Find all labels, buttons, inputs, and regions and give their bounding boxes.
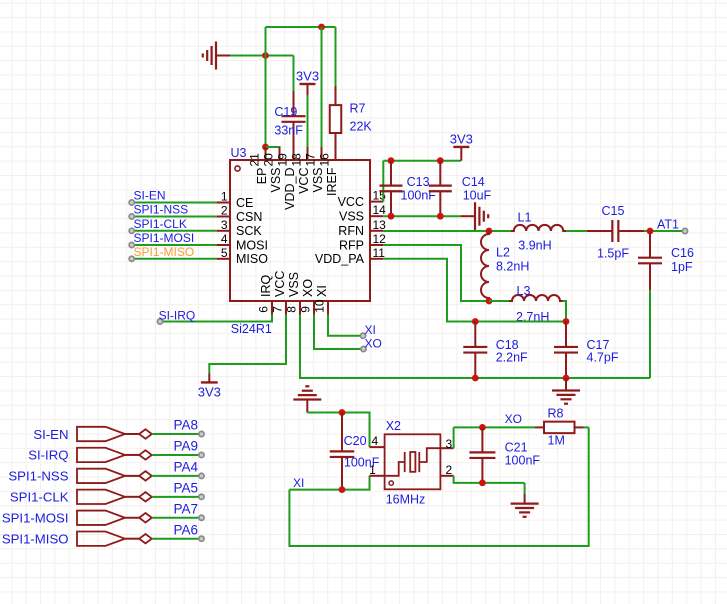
svg-text:RFP: RFP — [339, 238, 364, 252]
svg-text:13: 13 — [373, 218, 387, 232]
wire pin14 rail — [383, 215, 461, 217]
svg-text:4: 4 — [372, 434, 379, 448]
wire VSS rail bottom — [300, 315, 650, 379]
U3 pin 2 CSN stub — [217, 204, 262, 224]
svg-text:1M: 1M — [548, 434, 565, 448]
wire XI loop to R8 — [289, 427, 588, 546]
U3 pin 12 RFP stub — [339, 232, 386, 252]
svg-text:8: 8 — [285, 306, 299, 313]
crystal X2 16MHz body — [385, 419, 441, 506]
svg-text:C13: C13 — [407, 175, 430, 189]
svg-text:IRQ: IRQ — [259, 275, 273, 298]
svg-text:16MHz: 16MHz — [386, 493, 426, 507]
port flag SPI1-MISO / PA6 — [2, 522, 204, 546]
svg-text:L1: L1 — [518, 211, 532, 225]
wire pin2 to gnd — [454, 476, 525, 483]
svg-text:VCC: VCC — [273, 271, 287, 297]
svg-text:XI: XI — [293, 476, 304, 490]
svg-text:XO: XO — [505, 412, 522, 426]
svg-text:C14: C14 — [462, 175, 485, 189]
svg-text:IREF: IREF — [325, 167, 339, 196]
wire pin7 to 3V3 — [209, 315, 286, 374]
node label XO — [365, 337, 382, 351]
node label XI crystal — [293, 476, 304, 490]
svg-text:XO: XO — [301, 279, 315, 297]
node junction C20 top — [339, 409, 346, 416]
wire 3V3 rail top — [383, 160, 461, 162]
svg-text:17: 17 — [304, 153, 318, 167]
U3 pin 20 VSS top stub — [262, 147, 284, 193]
svg-text:PA8: PA8 — [173, 418, 198, 433]
svg-text:1: 1 — [369, 463, 376, 477]
node junction EP/VSS net at (265.5,55.5) — [262, 52, 269, 59]
svg-text:X2: X2 — [386, 419, 401, 433]
node label XO crystal — [505, 412, 522, 426]
ground VSS rail — [552, 378, 580, 404]
svg-text:VSS: VSS — [287, 272, 301, 297]
wire 3V3 to pin18 — [307, 95, 309, 147]
svg-text:SI-IRQ: SI-IRQ — [159, 309, 196, 323]
wire XO net — [454, 426, 535, 428]
wire C15 to AT1 — [644, 230, 685, 232]
X2 pin1 stub — [369, 463, 384, 477]
resistor R7 22K — [330, 86, 373, 147]
svg-text:2.2nF: 2.2nF — [496, 350, 528, 364]
ground symbol top-left — [203, 42, 230, 70]
wire pin17 vertical — [321, 27, 323, 147]
wire C19 branch down — [293, 56, 295, 92]
wire L2/L3 joint — [489, 300, 509, 302]
wire elbow pin20 — [266, 147, 280, 148]
U3 pin 11 VDD_PA stub — [315, 246, 385, 266]
svg-text:3V3: 3V3 — [296, 69, 319, 84]
svg-text:C16: C16 — [671, 246, 694, 260]
svg-text:XI: XI — [365, 323, 376, 337]
node label XI — [365, 323, 376, 337]
svg-text:R7: R7 — [350, 102, 366, 116]
svg-text:SPI1-NSS: SPI1-NSS — [134, 203, 189, 217]
wire vertical pin21 net — [265, 27, 267, 147]
wire pin3 to XO — [453, 427, 455, 448]
capacitor C21 100nF — [469, 427, 540, 483]
svg-text:C15: C15 — [602, 204, 625, 218]
wire net SPI1-NSS — [129, 203, 217, 220]
svg-text:VSS: VSS — [339, 210, 364, 224]
wire net SI-IRQ — [157, 309, 272, 325]
svg-text:3: 3 — [221, 218, 228, 232]
wire ground to C19 branch — [230, 55, 294, 57]
svg-text:21: 21 — [248, 153, 262, 167]
node junction C17 bottom — [563, 375, 570, 382]
port flag SPI1-NSS / PA4 — [8, 460, 204, 484]
svg-text:4.7pF: 4.7pF — [587, 350, 619, 364]
wire net SPI1-MOSI — [129, 231, 217, 248]
svg-text:1pF: 1pF — [671, 260, 693, 274]
wire pin12 RFP — [383, 245, 489, 301]
svg-text:20: 20 — [262, 153, 276, 167]
wire XI net — [289, 476, 369, 490]
power flag 3V3 right — [450, 132, 473, 161]
port flag SPI1-MOSI / PA7 — [2, 501, 204, 525]
svg-text:14: 14 — [373, 203, 387, 217]
X2 pin3 stub — [440, 437, 453, 451]
svg-text:3V3: 3V3 — [450, 132, 473, 147]
U3 pin 15 VCC stub — [338, 189, 387, 209]
svg-text:PA9: PA9 — [173, 439, 198, 454]
svg-text:VDD_PA: VDD_PA — [315, 252, 365, 266]
power flag 3V3 bottom — [198, 374, 221, 400]
capacitor C15 1.5pF — [587, 204, 644, 261]
U3 pin 7 VCC bottom stub — [271, 271, 288, 315]
svg-text:3V3: 3V3 — [198, 385, 221, 400]
capacitor C16 1pF — [638, 231, 694, 290]
svg-text:1: 1 — [221, 190, 228, 204]
svg-text:12: 12 — [373, 232, 387, 246]
wire pin11 VDD_PA — [383, 259, 566, 322]
svg-text:SI-EN: SI-EN — [134, 189, 166, 203]
svg-text:PA6: PA6 — [173, 522, 198, 537]
svg-text:10uF: 10uF — [463, 189, 492, 203]
wire C16 down — [649, 290, 651, 378]
svg-text:C19: C19 — [274, 105, 297, 119]
capacitor C20 100nF — [330, 413, 380, 490]
node junction C18 top — [472, 318, 479, 325]
node junction C20 bottom — [339, 486, 346, 493]
svg-text:10: 10 — [313, 299, 327, 313]
capacitor C18 2.2nF — [463, 322, 528, 379]
svg-text:9: 9 — [299, 306, 313, 313]
U3 pin 14 VSS stub — [339, 203, 386, 223]
svg-text:3: 3 — [446, 437, 453, 451]
X2 pin4 stub — [370, 434, 385, 448]
U3 pin 19 VDD_D top stub — [276, 147, 298, 210]
node AT1 antenna — [657, 218, 688, 234]
svg-text:19: 19 — [276, 153, 290, 167]
U3 sublabel Si24R1 — [231, 322, 272, 336]
U3 pin 13 RFN stub — [338, 218, 386, 238]
node junction C18 bottom — [472, 375, 479, 382]
inductor L3 2.7nH — [509, 284, 563, 324]
port flag SI-EN / PA8 — [33, 418, 204, 442]
node junction pin21 top — [262, 144, 269, 151]
node junction C21 top — [479, 424, 486, 431]
port flag SPI1-CLK / PA5 — [10, 481, 204, 505]
ground pin14 — [461, 202, 488, 230]
svg-text:CE: CE — [236, 196, 253, 210]
svg-text:AT1: AT1 — [657, 218, 679, 232]
node junction C13 bottom — [388, 213, 395, 220]
IC U3 Si24R1 body — [230, 146, 370, 301]
wire L1 to C15 — [566, 230, 587, 232]
svg-text:SCK: SCK — [236, 224, 262, 238]
wire R8 right — [584, 426, 589, 428]
capacitor C14 10uF — [429, 161, 492, 217]
svg-text:18: 18 — [290, 153, 304, 167]
svg-text:SPI1-MOSI: SPI1-MOSI — [134, 231, 195, 245]
node junction C17 top — [563, 318, 570, 325]
wire top rail — [266, 26, 336, 28]
wire net SPI1-MISO — [129, 245, 217, 262]
svg-text:SPI1-MISO: SPI1-MISO — [134, 245, 195, 259]
svg-text:SPI1-MISO: SPI1-MISO — [2, 532, 69, 547]
svg-text:SPI1-MOSI: SPI1-MOSI — [2, 511, 69, 526]
svg-text:R8: R8 — [548, 407, 564, 421]
svg-text:VSS: VSS — [311, 168, 325, 193]
svg-text:XO: XO — [365, 337, 382, 351]
svg-text:8.2nH: 8.2nH — [496, 260, 529, 274]
wire gnd to X2 pin4 — [307, 413, 369, 448]
svg-text:PA5: PA5 — [173, 481, 198, 496]
node junction C21 bottom — [479, 480, 486, 487]
U3 pin 8 VSS bottom stub — [285, 272, 302, 315]
inductor L2 8.2nH — [481, 231, 529, 301]
svg-text:MISO: MISO — [236, 252, 268, 266]
U3 pin 17 VSS top stub — [304, 147, 326, 193]
wire pin15 riser — [382, 161, 384, 202]
node junction top rail x321.5 — [318, 24, 325, 31]
svg-text:7: 7 — [271, 306, 285, 313]
svg-text:4: 4 — [221, 232, 228, 246]
svg-text:1.5pF: 1.5pF — [597, 247, 629, 261]
U3 pin 4 MOSI stub — [217, 232, 268, 252]
svg-text:PA7: PA7 — [173, 501, 198, 516]
svg-text:6: 6 — [257, 306, 271, 313]
svg-text:2: 2 — [446, 463, 453, 477]
svg-text:PA4: PA4 — [173, 460, 198, 475]
U3 pin 18 VCC top stub — [290, 147, 312, 194]
port flag SI-IRQ / PA9 — [28, 439, 204, 463]
wire net SPI1-CLK — [129, 217, 217, 234]
ground crystal right — [511, 494, 539, 517]
svg-text:VCC: VCC — [338, 195, 364, 209]
svg-text:22K: 22K — [350, 120, 373, 134]
node junction C13 top — [388, 157, 395, 164]
svg-text:MOSI: MOSI — [236, 238, 268, 252]
svg-text:RFN: RFN — [338, 224, 364, 238]
wire R7 top — [335, 27, 337, 86]
wire pin9 XO stub — [314, 315, 366, 352]
node junction C14 bottom — [437, 213, 444, 220]
svg-text:3.9nH: 3.9nH — [518, 239, 551, 253]
ground crystal (inverted) — [293, 386, 321, 412]
svg-text:C21: C21 — [505, 440, 528, 454]
U3 pin 21 EP top stub — [248, 147, 270, 184]
wire L3 to C17 node — [563, 301, 566, 322]
wire net SI-EN — [129, 189, 217, 206]
svg-text:SI-IRQ: SI-IRQ — [28, 448, 68, 463]
resistor R8 1M — [535, 407, 584, 448]
wire pin10 XI stub — [328, 315, 366, 339]
svg-text:C20: C20 — [344, 434, 367, 448]
svg-text:L2: L2 — [496, 246, 510, 260]
capacitor C13 100nF — [380, 161, 437, 217]
wire pin13 RFN — [383, 230, 511, 232]
U3 pin 5 MISO stub — [217, 246, 268, 266]
U3 pin 16 IREF top stub — [318, 147, 340, 196]
svg-text:VDD_D: VDD_D — [283, 168, 297, 210]
U3 pin 6 IRQ bottom stub — [257, 275, 274, 315]
svg-text:SI-EN: SI-EN — [33, 427, 68, 442]
svg-text:Si24R1: Si24R1 — [231, 322, 272, 336]
inductor L1 3.9nH — [511, 211, 566, 253]
U3 pin 3 SCK stub — [217, 218, 262, 238]
U3 pin 10 XI bottom stub — [313, 285, 330, 314]
capacitor C19 — [274, 91, 305, 147]
svg-text:L3: L3 — [517, 284, 531, 298]
wire gnd drop — [524, 483, 526, 494]
node junction C14 top — [437, 157, 444, 164]
U3 pin 9 XO bottom stub — [299, 279, 316, 315]
svg-text:CSN: CSN — [236, 210, 262, 224]
X2 pin2 stub — [440, 463, 453, 477]
svg-text:XI: XI — [315, 285, 329, 297]
svg-text:2: 2 — [221, 204, 228, 218]
svg-text:U3: U3 — [231, 146, 247, 160]
node junction C16 top — [647, 228, 654, 235]
svg-text:EP: EP — [255, 168, 269, 185]
svg-text:SPI1-CLK: SPI1-CLK — [10, 490, 69, 505]
svg-text:VCC: VCC — [297, 168, 311, 194]
svg-text:SPI1-CLK: SPI1-CLK — [134, 217, 187, 231]
svg-text:16: 16 — [318, 153, 332, 167]
svg-text:5: 5 — [221, 246, 228, 260]
svg-text:VSS: VSS — [269, 168, 283, 193]
node junction L2 bottom — [486, 298, 493, 305]
power flag 3V3 top (pin18) — [296, 69, 319, 96]
U3 pin 1 CE stub — [217, 190, 253, 210]
svg-text:100nF: 100nF — [505, 454, 541, 468]
svg-text:SPI1-NSS: SPI1-NSS — [8, 469, 68, 484]
svg-text:33nF: 33nF — [274, 124, 303, 138]
node junction L1/L2 — [486, 228, 493, 235]
capacitor C17 4.7pF — [554, 322, 619, 379]
svg-text:11: 11 — [373, 246, 386, 260]
